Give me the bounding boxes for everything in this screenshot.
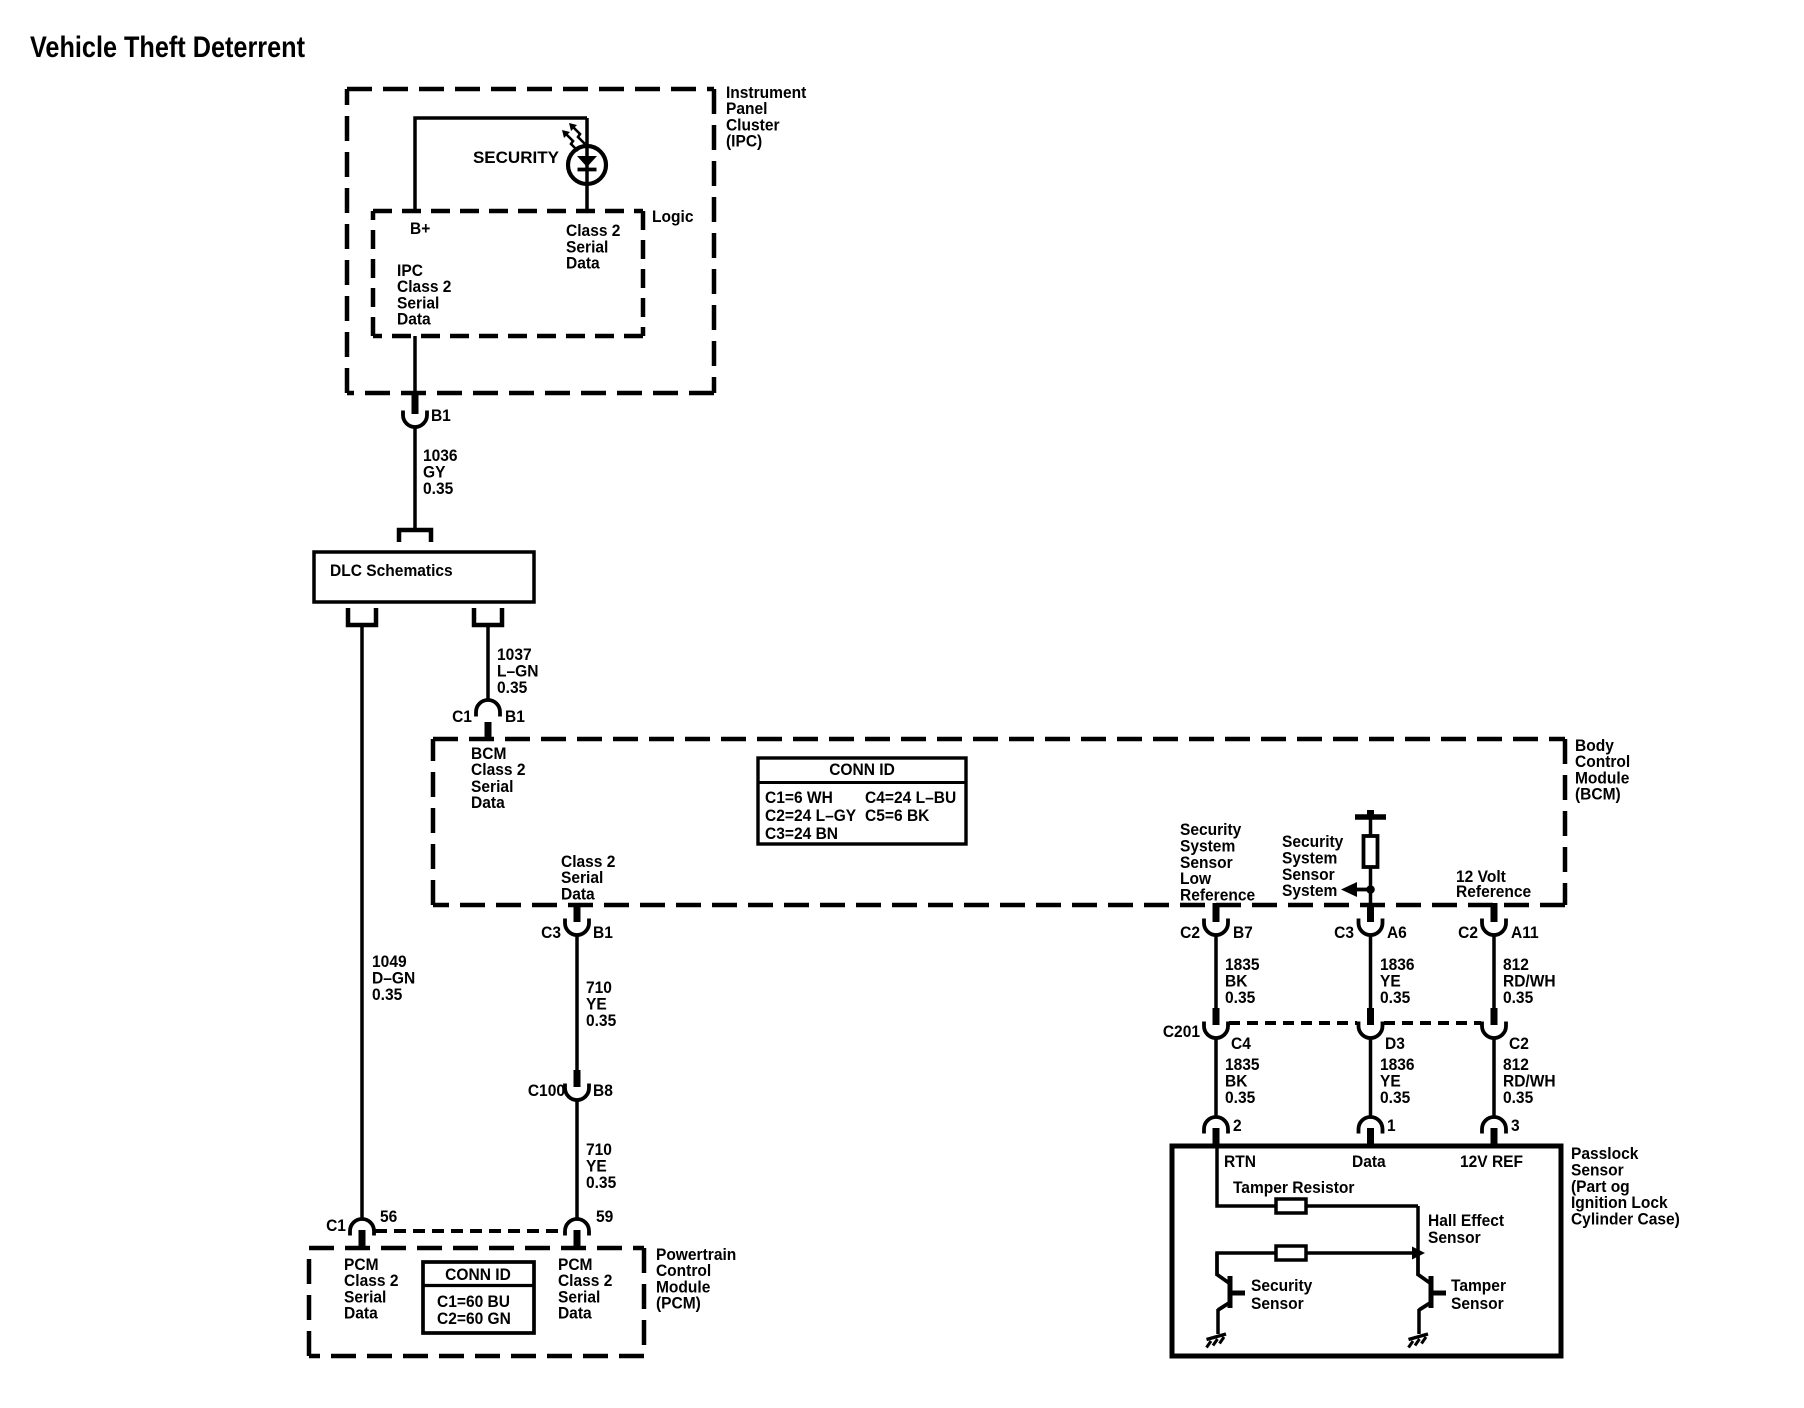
wire 1836 YE 0.35 (upper) xyxy=(1369,935,1373,1008)
module box Passlock Sensor xyxy=(1172,1146,1561,1356)
svg-text:1: 1 xyxy=(1387,1116,1396,1135)
CONN ID table (PCM) xyxy=(423,1262,534,1333)
svg-text:(BCM): (BCM) xyxy=(1575,785,1621,804)
resistor (BCM pull-up) xyxy=(1364,836,1378,867)
svg-text:B1: B1 xyxy=(593,923,613,942)
svg-text:0.35: 0.35 xyxy=(1380,988,1410,1007)
svg-text:C201: C201 xyxy=(1163,1022,1200,1041)
junction dot xyxy=(1366,885,1375,894)
wire 1835 BK 0.35 (upper) xyxy=(1214,935,1218,1008)
svg-text:0.35: 0.35 xyxy=(1380,1088,1410,1107)
wire hall effect vertical xyxy=(1416,1206,1420,1276)
terminal bracket DLC left out xyxy=(348,608,376,625)
svg-text:Data: Data xyxy=(471,793,506,812)
svg-text:3: 3 xyxy=(1511,1116,1520,1135)
svg-text:B1: B1 xyxy=(505,707,525,726)
svg-text:Data: Data xyxy=(397,310,432,329)
wire 710 YE 0.35 (upper) xyxy=(575,935,579,1070)
svg-text:2: 2 xyxy=(1233,1116,1242,1135)
svg-text:C1: C1 xyxy=(452,707,472,726)
connector link dashed (PCM C1) xyxy=(375,1229,564,1233)
connector pin 1 (Passlock) xyxy=(1359,1117,1383,1134)
wire LED branch xyxy=(585,118,589,211)
wire 710 YE 0.35 (lower) xyxy=(575,1100,579,1220)
svg-text:D3: D3 xyxy=(1385,1034,1405,1053)
svg-text:C3: C3 xyxy=(1334,923,1354,942)
svg-text:B+: B+ xyxy=(410,219,430,238)
svg-text:Cylinder Case): Cylinder Case) xyxy=(1571,1210,1680,1229)
transistor tamper sensor xyxy=(1416,1253,1420,1275)
svg-text:C4: C4 xyxy=(1231,1034,1251,1053)
terminal bracket into DLC xyxy=(399,530,431,542)
arrow to Security System Sensor System xyxy=(1356,888,1371,892)
svg-text:0.35: 0.35 xyxy=(586,1011,616,1030)
svg-text:System: System xyxy=(1282,882,1337,901)
svg-text:C4=24 L–BU: C4=24 L–BU xyxy=(865,788,956,807)
svg-text:A11: A11 xyxy=(1511,923,1539,942)
svg-text:B7: B7 xyxy=(1233,923,1253,942)
connector C3/A6 xyxy=(1367,903,1374,922)
svg-text:59: 59 xyxy=(596,1207,613,1226)
connector C1/B1 (BCM) xyxy=(476,700,500,717)
svg-text:C2: C2 xyxy=(1509,1034,1529,1053)
svg-text:Data: Data xyxy=(344,1304,379,1323)
terminal bracket DLC right out xyxy=(474,608,502,625)
svg-text:Tamper: Tamper xyxy=(1451,1276,1507,1295)
ground (security sensor) xyxy=(1207,1334,1227,1348)
svg-text:Sensor: Sensor xyxy=(1251,1294,1304,1313)
svg-text:Sensor: Sensor xyxy=(1428,1228,1481,1247)
svg-text:C2=60 GN: C2=60 GN xyxy=(437,1309,511,1328)
svg-text:SECURITY: SECURITY xyxy=(473,148,559,167)
svg-text:CONN ID: CONN ID xyxy=(829,760,895,779)
svg-text:Sensor: Sensor xyxy=(1451,1294,1504,1313)
connector link dotted (C201) xyxy=(1229,1021,1357,1025)
svg-text:Data: Data xyxy=(558,1304,593,1323)
resistor tamper xyxy=(1276,1199,1306,1213)
label Logic xyxy=(397,207,693,328)
wire 1037 L-GN 0.35 xyxy=(486,627,490,700)
svg-text:0.35: 0.35 xyxy=(1503,1088,1533,1107)
svg-text:C1: C1 xyxy=(326,1216,346,1235)
connector C3/B1 (BCM bottom) xyxy=(574,903,581,922)
resistor security xyxy=(1276,1246,1306,1260)
wire IPC class2 out xyxy=(413,336,417,395)
connector C100/B8 xyxy=(574,1070,581,1087)
connector pin 59 (PCM) xyxy=(565,1219,589,1236)
connector pin 3 (Passlock) xyxy=(1482,1117,1506,1134)
svg-text:C5=6 BK: C5=6 BK xyxy=(865,806,930,825)
connector C201 row (C4, D3, C2) xyxy=(1213,1008,1220,1025)
svg-text:Data: Data xyxy=(566,254,601,273)
svg-text:56: 56 xyxy=(380,1207,397,1226)
transistor security sensor xyxy=(1215,1253,1219,1275)
svg-text:C3=24 BN: C3=24 BN xyxy=(765,824,838,843)
wire feed to resistor xyxy=(1369,819,1373,836)
svg-text:CONN ID: CONN ID xyxy=(445,1265,511,1284)
connector B1 (IPC) xyxy=(412,394,419,414)
module box BCM (dashed) xyxy=(433,737,1565,742)
connector C2/A11 xyxy=(1491,903,1498,922)
svg-text:Data: Data xyxy=(1352,1152,1387,1171)
wire 812 RD/WH 0.35 (upper) xyxy=(1492,935,1496,1008)
wire 812 RD/WH 0.35 (lower) xyxy=(1492,1038,1496,1118)
svg-text:0.35: 0.35 xyxy=(586,1173,616,1192)
LED light arrows xyxy=(566,127,585,151)
svg-text:RTN: RTN xyxy=(1224,1152,1256,1171)
svg-text:C1=60 BU: C1=60 BU xyxy=(437,1292,510,1311)
svg-text:0.35: 0.35 xyxy=(372,985,402,1004)
svg-text:0.35: 0.35 xyxy=(1503,988,1533,1007)
CONN ID table (BCM) xyxy=(758,758,966,844)
indicator label SECURITY xyxy=(473,148,559,167)
connector C1 pin 56 (PCM) xyxy=(350,1219,374,1236)
svg-text:C2: C2 xyxy=(1458,923,1478,942)
svg-text:Security: Security xyxy=(1251,1276,1312,1295)
wire B+ feed (IPC top) xyxy=(415,118,587,211)
svg-text:(PCM): (PCM) xyxy=(656,1294,701,1313)
connector C2/B7 xyxy=(1213,903,1220,922)
module box PCM (dashed) xyxy=(309,1246,644,1251)
svg-text:12V REF: 12V REF xyxy=(1460,1152,1523,1171)
svg-text:(IPC): (IPC) xyxy=(726,132,762,151)
title Vehicle Theft Deterrent xyxy=(30,30,305,64)
svg-text:C2=24 L–GY: C2=24 L–GY xyxy=(765,806,856,825)
svg-text:0.35: 0.35 xyxy=(1225,988,1255,1007)
wire 1049 D-GN 0.35 xyxy=(360,627,364,1220)
svg-text:Vehicle Theft Deterrent: Vehicle Theft Deterrent xyxy=(30,30,305,64)
LED security indicator xyxy=(568,146,606,184)
module box IPC (dashed) xyxy=(347,87,714,92)
ground (tamper sensor) xyxy=(1409,1334,1429,1348)
svg-text:0.35: 0.35 xyxy=(423,479,453,498)
svg-text:C3: C3 xyxy=(541,923,561,942)
wire RTN internal xyxy=(1217,1148,1418,1206)
svg-text:0.35: 0.35 xyxy=(497,678,527,697)
svg-text:DLC Schematics: DLC Schematics xyxy=(330,561,453,580)
svg-text:Reference: Reference xyxy=(1180,886,1255,905)
svg-text:C1=6 WH: C1=6 WH xyxy=(765,788,833,807)
svg-text:B8: B8 xyxy=(593,1081,613,1100)
label Body Control Module (BCM) xyxy=(471,736,1630,812)
wire 1836 YE 0.35 (lower) xyxy=(1369,1038,1373,1118)
svg-text:0.35: 0.35 xyxy=(1225,1088,1255,1107)
power feed symbol (BCM internal) xyxy=(1355,814,1386,820)
svg-text:Reference: Reference xyxy=(1456,882,1531,901)
svg-text:Class 2: Class 2 xyxy=(471,760,525,779)
wire 1835 BK 0.35 (lower) xyxy=(1214,1038,1218,1118)
svg-text:B1: B1 xyxy=(431,406,451,425)
label Instrument Panel Cluster (IPC) xyxy=(726,83,807,150)
svg-text:Tamper Resistor: Tamper Resistor xyxy=(1233,1178,1355,1197)
svg-text:Hall Effect: Hall Effect xyxy=(1428,1211,1505,1230)
connector pin 2 (Passlock) xyxy=(1204,1117,1228,1134)
svg-text:C100: C100 xyxy=(528,1081,565,1100)
logic box (dashed) xyxy=(373,209,643,214)
wire resistor to A6 xyxy=(1369,867,1373,903)
wire security row xyxy=(1217,1253,1418,1276)
svg-text:C2: C2 xyxy=(1180,923,1200,942)
svg-text:Logic: Logic xyxy=(652,207,693,226)
svg-text:A6: A6 xyxy=(1387,923,1407,942)
DLC Schematics box xyxy=(314,552,534,602)
wire 1036 GY 0.35 xyxy=(413,427,417,529)
junction arrow (hall effect) xyxy=(1412,1247,1425,1260)
svg-text:Data: Data xyxy=(561,885,596,904)
